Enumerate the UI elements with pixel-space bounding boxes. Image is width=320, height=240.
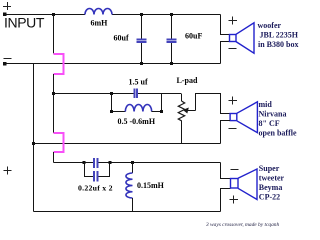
potentiometer L-pad <box>178 94 184 144</box>
label woofer JBL 2235H in B380 box <box>258 21 299 49</box>
inductor L1 6mH <box>85 9 112 15</box>
svg-text:L-pad: L-pad <box>177 76 198 85</box>
svg-text:open baffle: open baffle <box>259 129 297 138</box>
svg-text:Beyma: Beyma <box>259 183 283 192</box>
speaker mid <box>230 102 257 133</box>
speaker tweeter <box>231 169 258 200</box>
jumper hop 1 (magenta, no-connect crossover) <box>54 54 64 74</box>
wire tweeter top rail <box>54 162 221 164</box>
input minus terminal <box>4 58 12 60</box>
node junction bypass right <box>109 161 112 164</box>
svg-text:3 ways crossover, made by tcqa: 3 ways crossover, made by tcqanh <box>205 222 279 228</box>
label mid Nirvana 8" CF open baffle <box>259 100 297 138</box>
node junction bypass left <box>83 161 86 164</box>
svg-text:0.15mH: 0.15mH <box>137 181 165 190</box>
wire vertical drop from plus rail <box>53 15 55 54</box>
capacitor C5 0.22uf bypass loop <box>85 163 110 182</box>
svg-text:woofer: woofer <box>258 21 282 30</box>
wire minus rail <box>5 63 221 65</box>
inductor L2 0.5-0.6mH parallel branch <box>110 94 163 114</box>
inductor L3 0.15mH shunt <box>126 163 133 212</box>
wire woofer minus lead <box>221 42 230 64</box>
potentiometer wiper arrow <box>183 108 196 114</box>
mid plus sign <box>229 97 238 105</box>
input minus dot <box>3 62 7 66</box>
node junction parallel left top <box>110 92 113 95</box>
svg-text:1.5 uf: 1.5 uf <box>129 78 148 87</box>
stray plus sign left <box>4 167 12 175</box>
svg-text:Nirvana: Nirvana <box>259 110 287 119</box>
wire woofer plus lead <box>221 15 230 35</box>
label Super tweeter Beyma CP-22 <box>259 164 285 202</box>
wire tweeter bottom rail <box>34 211 221 213</box>
wire vertical x53 hop2 to tweeter rail <box>53 152 55 163</box>
speaker woofer <box>230 23 255 53</box>
svg-text:8" CF: 8" CF <box>259 119 280 128</box>
wire wiper to mid speaker plus <box>196 94 231 114</box>
input plus dot <box>3 13 7 17</box>
node junction shunt inductor top <box>131 161 134 164</box>
wire tweeter minus lead <box>221 163 231 179</box>
capacitor C1 60uf <box>137 13 147 65</box>
input plus terminal <box>3 2 11 10</box>
woofer plus sign <box>229 17 238 25</box>
wire vertical x53 between hop1 and mid rail <box>53 74 55 133</box>
svg-text:0.22uf x 2: 0.22uf x 2 <box>78 184 113 193</box>
wire left minus vertical <box>33 64 35 212</box>
capacitor C4 0.22uf series <box>94 158 98 168</box>
wire tweeter plus lead <box>221 189 231 212</box>
svg-text:CP-22: CP-22 <box>259 193 280 202</box>
capacitor C3 1.5uf <box>134 89 137 98</box>
svg-text:60uF: 60uF <box>185 32 202 41</box>
wire mid speaker minus lead <box>221 121 231 144</box>
svg-text:6mH: 6mH <box>91 19 109 28</box>
svg-text:0.5 -0.6mH: 0.5 -0.6mH <box>118 117 156 126</box>
svg-text:Super: Super <box>259 164 280 173</box>
capacitor C2 60uF <box>167 13 177 65</box>
svg-text:in B380 box: in B380 box <box>258 40 298 49</box>
wire mid bottom rail <box>34 143 221 145</box>
tweeter plus sign <box>230 196 239 204</box>
mid minus sign <box>229 128 237 130</box>
woofer minus sign <box>229 48 237 50</box>
wire top plus rail <box>5 14 221 16</box>
node junction minus rail left <box>32 142 35 145</box>
node junction mid rail at x53 <box>52 92 55 95</box>
svg-text:INPUT: INPUT <box>4 15 45 31</box>
svg-text:60uf: 60uf <box>114 34 129 43</box>
svg-text:mid: mid <box>259 100 273 109</box>
jumper hop 2 (magenta, no-connect crossover) <box>54 133 64 152</box>
tweeter minus sign <box>231 169 239 171</box>
node junction top at x53 <box>52 13 55 16</box>
svg-text:tweeter: tweeter <box>259 174 285 183</box>
wire mid top rail <box>54 93 182 95</box>
svg-text:JBL 2235H: JBL 2235H <box>260 31 299 40</box>
